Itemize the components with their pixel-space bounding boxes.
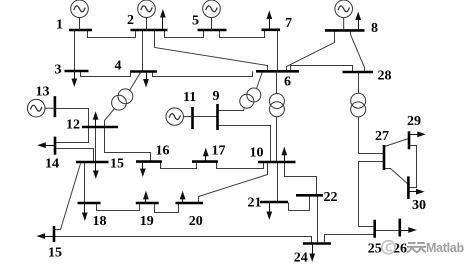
transformer T28-27 xyxy=(351,93,366,117)
load arrow bus 8 xyxy=(356,13,360,31)
svg-text:22: 22 xyxy=(324,190,338,205)
wire 23-24 long bottom xyxy=(55,237,312,244)
bus 19 xyxy=(136,202,159,205)
svg-text:16: 16 xyxy=(156,144,170,159)
load arrow bus 16 xyxy=(141,162,145,176)
bus 24 xyxy=(303,242,331,245)
bus 15 xyxy=(76,161,109,164)
generator G13 xyxy=(27,99,55,117)
wire 12-16 xyxy=(105,127,151,162)
load arrow bus 12 xyxy=(93,113,97,127)
bus 20 xyxy=(176,202,204,205)
load arrow bus 3 xyxy=(72,71,76,86)
wire 9-6 via transformer xyxy=(218,108,245,111)
generator G2 xyxy=(138,0,156,30)
wire 25-26 xyxy=(375,230,400,232)
wire 24-25 xyxy=(325,235,375,244)
generator G1 xyxy=(71,0,89,30)
load arrow bus 10 xyxy=(282,148,286,162)
generator G8 xyxy=(335,0,353,30)
svg-text:30: 30 xyxy=(412,198,426,213)
wire 5-7 xyxy=(220,30,265,38)
bus 28 xyxy=(343,71,374,74)
svg-text:29: 29 xyxy=(407,114,421,129)
wire 18-19 xyxy=(97,203,140,211)
wire 27-29 xyxy=(385,139,409,147)
bus 5 xyxy=(198,29,227,32)
wire 3-4 xyxy=(81,71,131,77)
load arrow bus 29 xyxy=(409,132,425,136)
bus 13 xyxy=(54,96,57,117)
load arrow bus 2 xyxy=(161,11,165,31)
transformer T6-10 xyxy=(269,94,284,117)
bus 21 xyxy=(260,201,288,204)
wire 15-18 xyxy=(84,163,86,203)
wire 6-10 lower lead xyxy=(276,117,278,163)
wire 12-14 xyxy=(55,127,89,143)
wire 19-20 xyxy=(155,203,179,213)
bus 27 xyxy=(383,145,386,170)
bus 18 xyxy=(78,202,101,205)
wire 1-2 xyxy=(88,31,136,38)
wire 29-30 xyxy=(409,146,417,188)
bus 3 xyxy=(65,70,89,73)
wire 4-6 xyxy=(153,72,253,77)
wire 13-12 xyxy=(55,109,89,127)
wire 27-25 xyxy=(359,162,385,227)
wire 11-9 xyxy=(193,116,218,118)
wire 16-17 xyxy=(161,162,197,169)
wire 4-12 upper lead xyxy=(130,73,141,91)
load arrow bus 30 xyxy=(409,190,424,194)
load arrow bus 15 xyxy=(94,163,98,178)
bus 26 xyxy=(398,219,401,237)
wire 28-27 upper lead xyxy=(358,73,360,94)
wire 6-7 xyxy=(277,30,279,72)
svg-text:19: 19 xyxy=(140,214,154,229)
generator G5 xyxy=(203,0,221,30)
bus 16 xyxy=(136,160,162,163)
bus 29 xyxy=(408,131,411,149)
bus 7 xyxy=(262,28,281,31)
wire 2-4 xyxy=(142,31,144,72)
svg-text:27: 27 xyxy=(375,129,389,144)
wire 14-15 xyxy=(55,149,94,163)
bus 4 xyxy=(130,70,157,73)
svg-text:10: 10 xyxy=(250,146,264,161)
wire 2-6 xyxy=(155,31,268,72)
svg-text:15: 15 xyxy=(48,246,62,261)
wire 10-22 xyxy=(285,163,317,196)
svg-text:7: 7 xyxy=(285,16,292,31)
load arrow bus 24 xyxy=(310,244,314,261)
load arrow bus 17 xyxy=(204,149,208,161)
bus 12 xyxy=(82,126,118,129)
wire 20-10 xyxy=(199,163,268,203)
wire 12-15 xyxy=(95,127,97,163)
svg-text:14: 14 xyxy=(45,156,59,171)
svg-text:25: 25 xyxy=(368,241,382,256)
wire 9-10 xyxy=(218,126,271,163)
svg-text:4: 4 xyxy=(115,58,122,73)
svg-text:15: 15 xyxy=(110,156,124,171)
svg-text:11: 11 xyxy=(183,90,196,105)
bus 10 xyxy=(258,161,296,164)
wire 28-27 lower lead xyxy=(359,117,385,154)
load arrow bus 7 xyxy=(267,12,271,30)
load arrow bus 20 xyxy=(180,192,184,202)
watermark logo xyxy=(382,241,395,254)
wire 8-28 xyxy=(351,31,365,73)
transformer T4-12 xyxy=(112,89,133,110)
svg-text:8: 8 xyxy=(371,21,378,36)
generator G11 xyxy=(166,108,193,125)
load arrow bus 4 xyxy=(144,72,148,87)
watermark tian tian xyxy=(407,243,426,253)
svg-text:17: 17 xyxy=(212,144,226,159)
bus 17 xyxy=(192,160,218,163)
svg-text:21: 21 xyxy=(248,196,262,211)
svg-text:6: 6 xyxy=(284,75,291,90)
svg-text:24: 24 xyxy=(294,251,308,266)
load arrow bus 14 xyxy=(39,143,55,147)
svg-text:18: 18 xyxy=(93,214,107,229)
svg-text:9: 9 xyxy=(213,89,220,104)
wire 22-24 xyxy=(317,196,319,244)
bus 14 xyxy=(54,137,57,155)
load arrow bus 18 xyxy=(83,203,87,220)
svg-text:5: 5 xyxy=(192,13,199,28)
svg-text:1: 1 xyxy=(56,18,63,33)
transformer T6-9 xyxy=(240,88,261,108)
wire 21-22 xyxy=(289,196,310,211)
bus 8 xyxy=(325,29,365,32)
wire 4-12 lower lead xyxy=(105,109,115,127)
bus 30 xyxy=(407,176,410,199)
wire 2-5 xyxy=(165,31,204,38)
svg-text:2: 2 xyxy=(127,13,134,28)
wire 27-30 xyxy=(385,169,409,185)
load arrow bus 26 xyxy=(400,228,416,232)
wire 15-23 diagonal xyxy=(55,164,81,230)
bus 15 bottom xyxy=(53,226,56,242)
svg-text:20: 20 xyxy=(189,214,203,229)
wire 8-6 xyxy=(287,31,335,72)
bus 6 xyxy=(256,70,299,73)
wire 6-10 upper lead xyxy=(276,72,278,94)
svg-text:13: 13 xyxy=(36,85,50,100)
svg-text:3: 3 xyxy=(55,63,62,78)
bus 1 xyxy=(69,29,92,32)
load arrow bus 15 bottom xyxy=(38,234,55,238)
svg-text:12: 12 xyxy=(66,118,80,133)
svg-text:Matlab: Matlab xyxy=(426,241,464,255)
svg-text:28: 28 xyxy=(378,69,392,84)
wire 1-3 xyxy=(74,31,76,71)
bus 25 xyxy=(373,220,376,238)
wire 10-21 xyxy=(277,163,279,203)
bus 22 xyxy=(296,194,323,197)
load arrow bus 19 xyxy=(144,192,148,202)
wire 17-10 xyxy=(217,162,264,169)
bus 2 xyxy=(131,29,168,32)
wire 6-28 xyxy=(291,66,353,73)
wire 6-9 upper lead xyxy=(257,72,263,89)
load arrow bus 21 xyxy=(267,203,271,219)
bus 11 xyxy=(191,107,194,129)
bus 9 xyxy=(216,104,219,130)
